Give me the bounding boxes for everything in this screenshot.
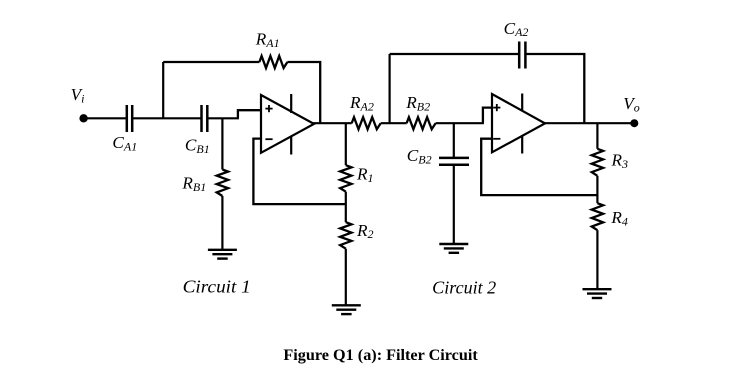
capacitor CA2 (519, 42, 525, 69)
op-amp U2 (492, 94, 545, 152)
svg-text:RB1: RB1 (181, 174, 206, 194)
U2 positive supply pin (521, 94, 523, 112)
resistor RB1 (217, 170, 228, 197)
svg-text:Circuit 1: Circuit 1 (183, 276, 251, 296)
caption Figure Q1 (a): Filter Circuit (283, 347, 478, 364)
wire RA1 feedback top left (163, 61, 259, 63)
svg-text:RA1: RA1 (255, 30, 280, 50)
label R3 (611, 151, 629, 171)
U1 negative supply pin (290, 136, 292, 155)
wire U1 output to RA2 (313, 122, 352, 124)
wire U2 inverting input feedback (481, 139, 597, 195)
node Vo output terminal (630, 119, 638, 127)
label CA1 (112, 133, 137, 153)
label RA2 (349, 93, 374, 113)
op-amp U1 (261, 95, 314, 153)
label RB2 (405, 93, 430, 113)
svg-text:CA2: CA2 (504, 19, 529, 39)
wire RB1 to ground (221, 196, 223, 250)
capacitor CA1 (127, 105, 132, 132)
U2 negative supply pin (521, 136, 523, 154)
wire node C down to R1 (345, 123, 347, 165)
ground for CB2 (439, 244, 468, 253)
wire node A up to RA1 feedback (162, 62, 164, 118)
capacitor CB1 (202, 105, 208, 132)
wire U1 inverting input feedback (253, 139, 346, 205)
U1 noninverting input plus sign (265, 105, 272, 112)
svg-text:Figure Q1 (a): Filter Circuit: Figure Q1 (a): Filter Circuit (283, 347, 478, 364)
wire RB2 to node E (436, 122, 484, 124)
wire node E down to CB2 (453, 123, 455, 157)
wire CB1 to node B (208, 117, 239, 119)
wire CB2 to ground (453, 166, 455, 244)
svg-text:CA1: CA1 (112, 133, 137, 153)
wire RA2 to RB2 (381, 122, 407, 124)
svg-text:RB2: RB2 (405, 93, 430, 113)
svg-text:R4: R4 (610, 208, 628, 228)
label Circuit 1 (183, 276, 251, 296)
label CB1 (185, 136, 210, 156)
wire node F down to R3 (596, 123, 598, 149)
label CA2 (504, 19, 529, 39)
ground for R4 (583, 289, 612, 298)
svg-text:CB2: CB2 (407, 146, 432, 166)
svg-text:Vi: Vi (71, 85, 85, 105)
resistor RB2 (407, 117, 436, 129)
capacitor CB2 (439, 158, 469, 165)
label R2 (356, 221, 374, 241)
resistor RA1 (259, 56, 287, 68)
svg-text:CB1: CB1 (185, 136, 210, 156)
wire node D up to CA2 feedback (389, 54, 391, 123)
wire CA2 feedback top left (390, 53, 519, 55)
svg-text:RA2: RA2 (349, 93, 374, 113)
svg-text:Vo: Vo (623, 94, 640, 114)
label Vi (71, 85, 85, 105)
wire R1 to R2 node (345, 192, 347, 223)
wire R2 to ground (345, 249, 347, 306)
resistor R4 (592, 203, 603, 230)
wire CA1 to CB1 (133, 117, 200, 119)
label RA1 (255, 30, 280, 50)
svg-text:R2: R2 (356, 221, 374, 241)
svg-text:R3: R3 (611, 151, 629, 171)
wire R4 to ground (596, 230, 598, 289)
U1 inverting input minus sign (265, 138, 272, 140)
label Circuit 2 (432, 278, 496, 298)
wire CA2 to U2 output node (526, 54, 584, 123)
U2 noninverting input plus sign (493, 104, 500, 111)
resistor RA2 (352, 117, 381, 129)
wire Vi to CA1 (84, 117, 126, 119)
U1 positive supply pin (290, 94, 292, 113)
wire node B down to RB1 (221, 118, 223, 169)
label Vo (623, 94, 640, 114)
ground for R2 (332, 305, 361, 314)
resistor R2 (340, 222, 351, 249)
svg-text:R1: R1 (356, 165, 374, 185)
wire U2 output to Vo (544, 122, 634, 124)
U2 inverting input minus sign (493, 138, 500, 140)
label RB1 (181, 174, 206, 194)
node Vi input terminal (79, 114, 87, 122)
wire R3 to R4 node (596, 176, 598, 203)
label R4 (610, 208, 628, 228)
resistor R1 (340, 165, 351, 192)
ground for RB1 (208, 250, 237, 259)
resistor R3 (592, 149, 603, 176)
wire node B to U1 noninverting input (238, 110, 262, 118)
label CB2 (407, 146, 432, 166)
wire RA1 to U1 output (287, 62, 320, 123)
svg-text:Circuit 2: Circuit 2 (432, 278, 496, 298)
label R1 (356, 165, 374, 185)
wire node E to U2 noninverting input (483, 108, 493, 124)
